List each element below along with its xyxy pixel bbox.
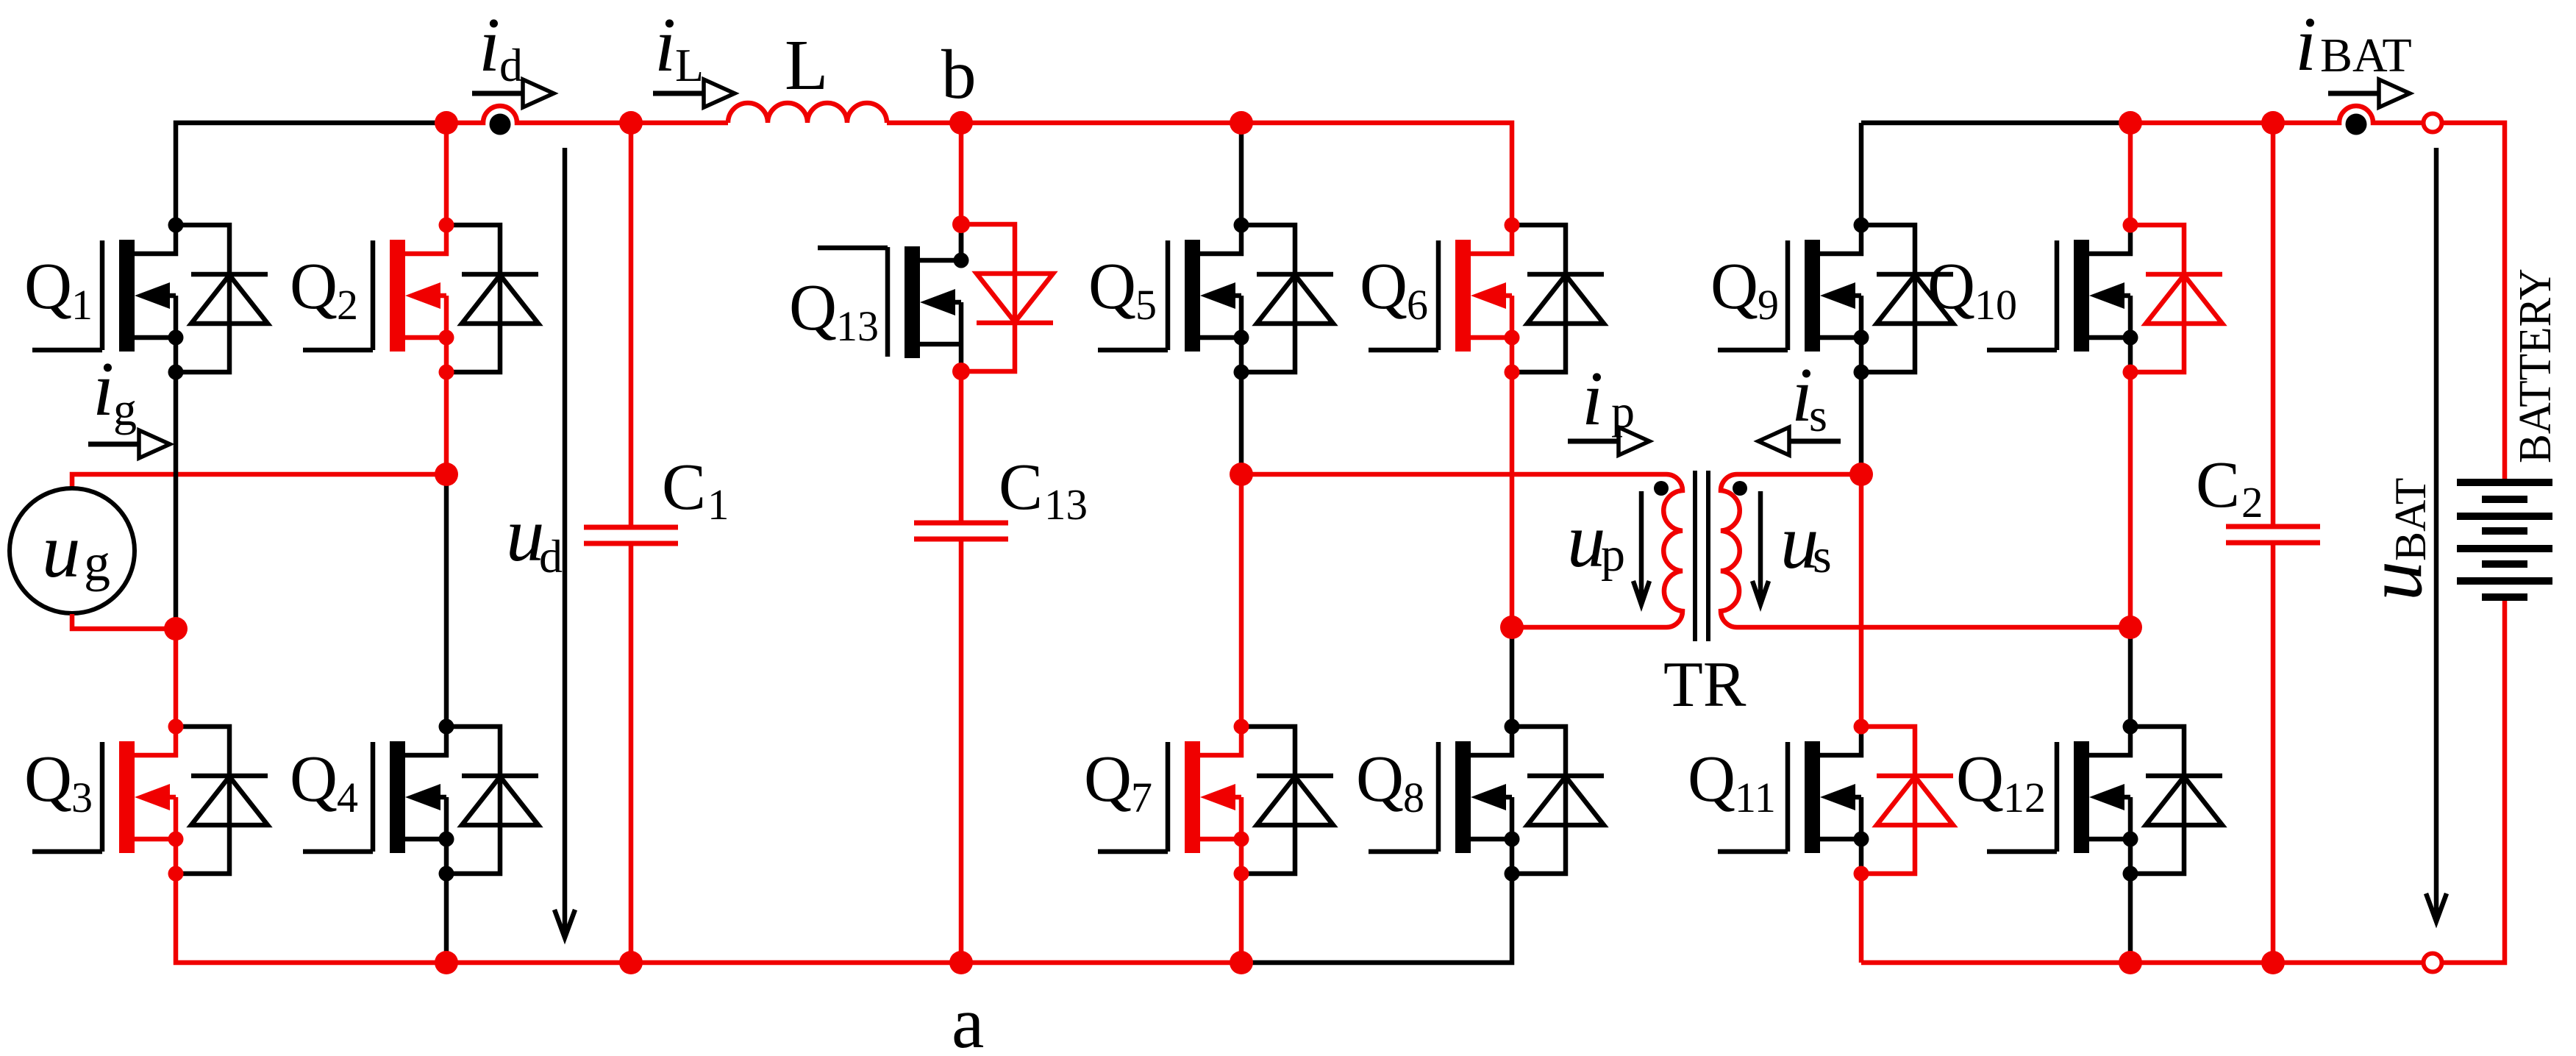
svg-text:Q: Q <box>1927 250 1975 323</box>
svg-text:8: 8 <box>1403 774 1424 821</box>
svg-text:u: u <box>1567 497 1606 583</box>
svg-text:Q: Q <box>1956 743 2004 816</box>
svg-text:L: L <box>675 39 704 91</box>
svg-text:i: i <box>2295 1 2316 87</box>
svg-text:10: 10 <box>1974 281 2017 329</box>
svg-text:L: L <box>785 26 828 104</box>
svg-text:Q: Q <box>1360 250 1407 323</box>
svg-text:Q: Q <box>1084 743 1132 816</box>
svg-text:2: 2 <box>337 281 358 329</box>
svg-text:Q: Q <box>290 743 338 816</box>
svg-text:d: d <box>499 39 523 91</box>
svg-text:9: 9 <box>1758 281 1779 329</box>
svg-text:C: C <box>2196 449 2240 521</box>
svg-text:Q: Q <box>290 250 338 323</box>
svg-text:11: 11 <box>1735 774 1776 821</box>
svg-text:a: a <box>952 982 984 1056</box>
svg-text:s: s <box>1813 529 1832 583</box>
svg-text:g: g <box>84 533 110 592</box>
svg-text:p: p <box>1611 385 1635 438</box>
svg-text:s: s <box>1809 389 1827 441</box>
svg-text:3: 3 <box>71 774 93 821</box>
svg-text:Q: Q <box>1710 250 1758 323</box>
svg-text:6: 6 <box>1407 281 1428 329</box>
svg-text:1: 1 <box>707 480 729 529</box>
svg-text:Q: Q <box>24 250 72 323</box>
svg-text:b: b <box>941 35 977 113</box>
svg-text:C: C <box>999 451 1043 524</box>
svg-text:Q: Q <box>789 271 837 344</box>
svg-text:d: d <box>539 530 563 582</box>
svg-text:Q: Q <box>1088 250 1136 323</box>
svg-text:12: 12 <box>2003 774 2046 821</box>
svg-text:13: 13 <box>1044 480 1088 529</box>
svg-text:Q: Q <box>1356 743 1404 816</box>
svg-text:4: 4 <box>337 774 358 821</box>
svg-text:BAT: BAT <box>2320 29 2412 82</box>
svg-text:Q: Q <box>1688 743 1735 816</box>
svg-text:7: 7 <box>1131 774 1152 821</box>
svg-text:13: 13 <box>836 302 879 350</box>
svg-text:2: 2 <box>2241 478 2263 527</box>
svg-text:g: g <box>113 383 137 435</box>
svg-text:i: i <box>654 1 676 88</box>
svg-text:i: i <box>93 346 114 432</box>
svg-text:p: p <box>1601 528 1625 582</box>
svg-text:5: 5 <box>1135 281 1157 329</box>
svg-text:Q: Q <box>24 743 72 816</box>
svg-text:i: i <box>479 1 500 88</box>
svg-text:i: i <box>1582 355 1603 441</box>
svg-text:u: u <box>42 507 81 593</box>
svg-text:1: 1 <box>71 281 93 329</box>
svg-text:C: C <box>662 451 706 524</box>
svg-text:TR: TR <box>1663 649 1747 721</box>
svg-text:BATTERY: BATTERY <box>2511 268 2561 463</box>
